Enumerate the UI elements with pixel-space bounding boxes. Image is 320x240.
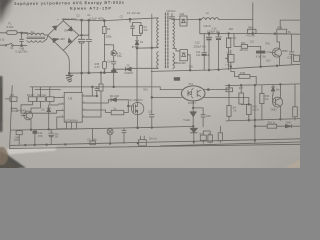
TL431 U5 box bbox=[228, 54, 234, 62]
junction C4 bottom bbox=[21, 45, 23, 47]
junction return C1 bbox=[88, 72, 90, 74]
switch S1 bbox=[5, 45, 7, 47]
junction bus Q2 bbox=[30, 129, 32, 131]
Vcc rail bbox=[30, 72, 114, 87]
secondary ground bus bbox=[151, 64, 300, 71]
wire bridge minus down bbox=[63, 50, 69, 73]
wire pin6 gate path bbox=[87, 100, 111, 103]
bottom wire W2 bbox=[161, 142, 301, 146]
junction bus TL431 bbox=[192, 126, 194, 128]
transistor Q4 bbox=[272, 48, 281, 57]
junction bridge right bbox=[81, 34, 83, 36]
wire choke to bridge AC2 bbox=[45, 36, 48, 41]
wire sense divider bbox=[100, 73, 102, 84]
junction pin out bbox=[96, 95, 98, 97]
capacitor C2 electrolytic bbox=[78, 20, 84, 73]
fuse F1 bbox=[7, 31, 17, 35]
junction gate bbox=[127, 105, 129, 107]
resistor R60 bbox=[218, 133, 222, 141]
resistor R39 bbox=[277, 29, 287, 34]
bright paper edge bottom-left bbox=[0, 147, 56, 156]
inductor L2 bbox=[201, 18, 219, 20]
diode D4 bbox=[12, 107, 18, 110]
junction boundary top bbox=[151, 47, 153, 49]
transformer T1 lower secondary winding bbox=[173, 53, 175, 69]
wire drain bbox=[136, 48, 138, 102]
bottom wire W1 bbox=[10, 139, 300, 146]
junction C18 bbox=[192, 107, 194, 109]
junction ctrl 1 bbox=[228, 85, 230, 87]
relay box K1 bbox=[139, 140, 147, 146]
capacitor C1 bbox=[86, 20, 92, 72]
resistor R44 bbox=[239, 75, 250, 79]
diode D9 bbox=[111, 98, 128, 102]
junction low rail 2 bbox=[280, 118, 282, 120]
output terminal frame bbox=[280, 20, 300, 29]
junction bus Q1 bbox=[137, 127, 139, 129]
wire bridge plus stub to bus bbox=[62, 19, 64, 20]
box right edge bbox=[294, 55, 300, 61]
capacitor C4 bbox=[20, 33, 24, 46]
junction C4 top bbox=[21, 32, 23, 34]
junction bus C2 bbox=[81, 19, 83, 21]
capacitor C11 bbox=[202, 34, 207, 71]
wire Q1 source bbox=[137, 115, 139, 128]
capacitor C13 bbox=[206, 34, 212, 71]
choke L1 top winding bbox=[28, 33, 45, 35]
wire opto out collector bbox=[205, 86, 230, 90]
box R17 bbox=[226, 88, 233, 92]
wire choke to bridge AC1 bbox=[44, 34, 47, 36]
low rail right bbox=[226, 119, 300, 121]
capacitor C18 bbox=[193, 108, 205, 127]
resistor R2 bbox=[103, 21, 105, 27]
capacitor C6 bbox=[87, 87, 99, 96]
junction divider bbox=[248, 104, 250, 106]
dark table edge left bbox=[0, 76, 3, 132]
junction ctrl 3 bbox=[280, 84, 282, 86]
connector CN1 bbox=[174, 77, 180, 81]
junction C14 bbox=[218, 33, 220, 35]
wire pin left links bbox=[21, 98, 60, 129]
junction return C2 bbox=[81, 72, 83, 74]
wire opto LED anode bbox=[114, 87, 182, 90]
junction bus snubber bbox=[129, 18, 131, 20]
junction output rail bbox=[252, 33, 254, 35]
Y-capacitor C15 bbox=[169, 13, 174, 19]
optocoupler U3 PC817 bbox=[181, 86, 205, 101]
transformer T1 primary winding bbox=[157, 18, 159, 48]
wire primary boundary vertical bbox=[151, 14, 153, 114]
resistor R4 bbox=[32, 87, 34, 97]
dark table corner top-left bbox=[0, 0, 30, 34]
diode D16 bbox=[190, 126, 197, 143]
dark table corner bottom-left bbox=[0, 152, 26, 169]
choke L1 core bbox=[27, 37, 45, 38]
zener D3 in circle bbox=[111, 51, 116, 56]
resistor R40 bbox=[248, 29, 257, 33]
resistor R9 bbox=[87, 110, 112, 113]
box HL1 bbox=[5, 97, 10, 102]
rectifier D14 bbox=[180, 50, 188, 61]
transformer T1 secondary winding bbox=[173, 20, 175, 49]
beeper circle bbox=[107, 129, 113, 135]
junction minus rail bbox=[68, 72, 70, 74]
wire L2 to right bbox=[219, 19, 253, 21]
junction D2 node bbox=[113, 68, 115, 70]
capacitor C17 film bbox=[256, 51, 265, 54]
capacitor C14 bbox=[216, 34, 222, 71]
IC ground drops bbox=[57, 122, 77, 129]
wire AC neutral input bbox=[0, 44, 5, 46]
junction drop top bbox=[254, 84, 256, 86]
snubber capacitor C3 bbox=[131, 26, 135, 35]
junction ctrl 2 bbox=[240, 84, 242, 86]
resistor R11 bbox=[49, 87, 51, 97]
capacitor C23 bbox=[122, 128, 126, 143]
transistor Q5 D882 bbox=[273, 97, 283, 107]
bottom primary bus bbox=[11, 126, 194, 130]
bridge rectifier D5 KBL406 bbox=[48, 21, 79, 51]
resistor R49 bbox=[247, 104, 252, 114]
rectifier D13 bbox=[180, 16, 187, 26]
junction bus C10 bbox=[151, 127, 153, 129]
resistor R46 bbox=[228, 86, 230, 106]
wire AC live input bbox=[0, 32, 7, 34]
output plus rail bbox=[200, 33, 300, 36]
clamp diode D1 bbox=[135, 39, 139, 49]
transistor Q2 bbox=[24, 111, 33, 120]
junction R41 bbox=[228, 33, 230, 35]
diode D17 bbox=[291, 125, 300, 128]
capacitor C9 bbox=[92, 129, 94, 142]
wires resistor row down bbox=[21, 101, 59, 113]
junction drop low bbox=[254, 119, 256, 121]
control rail right bbox=[226, 84, 301, 86]
resistor R10 bbox=[40, 87, 42, 97]
junction Vcc bbox=[113, 86, 115, 88]
resistor R19 bbox=[261, 85, 263, 120]
resistor R50 bbox=[241, 45, 247, 49]
junction drop bbox=[254, 125, 256, 127]
dc plus bus bbox=[63, 18, 157, 21]
wire rail2 bbox=[35, 88, 61, 90]
junction rail R39 bbox=[274, 33, 276, 35]
resistor R41 bbox=[226, 38, 230, 48]
junction sec bus c13 bbox=[218, 69, 220, 71]
capacitor C22 bbox=[289, 34, 294, 64]
capacitor C7 film bbox=[111, 70, 116, 73]
diode D2 bbox=[114, 67, 158, 71]
wire fuse to choke bbox=[17, 33, 28, 34]
junction sec bus c11 bbox=[208, 69, 210, 71]
junction pin7 bbox=[91, 86, 93, 88]
wire bridge right vertex tie bbox=[79, 20, 89, 35]
resistor R47 bbox=[240, 85, 242, 93]
junction C13 bbox=[208, 33, 210, 35]
wire mid connections bbox=[231, 67, 239, 77]
mid bus junctions bbox=[230, 66, 232, 68]
wire opto LED cathode bbox=[152, 96, 182, 98]
resistor R58 bbox=[200, 135, 206, 140]
junction W1 dots bbox=[25, 144, 27, 146]
TL431 D7 bbox=[190, 112, 196, 127]
brown table patch bottom-left bbox=[0, 147, 8, 165]
transformer T1 aux winding bbox=[157, 52, 159, 69]
capacitor C20 electrolytic bbox=[49, 129, 54, 144]
resistor R51 bbox=[255, 125, 267, 127]
wire R50 bbox=[234, 33, 241, 46]
junction opto left bbox=[151, 97, 153, 99]
wire pin3 sense bbox=[87, 95, 101, 117]
capacitor C16 bbox=[112, 62, 116, 69]
junction bus C1 bbox=[88, 19, 90, 21]
junction low rail bbox=[248, 119, 250, 121]
wire low rail drop bbox=[254, 85, 256, 143]
IC pins left bbox=[60, 98, 65, 118]
IC pins right bbox=[82, 96, 87, 117]
MOSFET Q1 bbox=[131, 102, 143, 114]
primary return rail bbox=[69, 71, 117, 74]
junction drain branch bbox=[136, 47, 138, 49]
resistor R59 bbox=[208, 135, 213, 142]
paper mottle bbox=[0, 0, 1, 1]
resistor R15 sense bbox=[102, 61, 106, 69]
resistor R48 bbox=[294, 84, 296, 107]
junction bus zener bbox=[48, 129, 50, 131]
wire rectified drop bbox=[199, 20, 201, 34]
junction R15 rail bbox=[104, 72, 106, 74]
snubber resistor R1 bbox=[139, 26, 142, 34]
junction sense bbox=[100, 72, 102, 74]
IC U1 UC3843 bbox=[64, 92, 82, 122]
earth ground bbox=[66, 73, 73, 82]
snubber tie top bbox=[130, 19, 141, 26]
zener D11 bbox=[271, 85, 275, 95]
capacitor C10 bbox=[150, 115, 155, 129]
junction opto collector bbox=[207, 89, 209, 91]
paper background bbox=[0, 0, 300, 168]
wire Vcc to pin bbox=[87, 87, 93, 96]
film grain bbox=[0, 0, 300, 168]
wire C2 line to IC bbox=[81, 73, 83, 92]
wire opto to TL431 bbox=[192, 100, 194, 111]
wire clamp to primary bottom bbox=[137, 47, 158, 50]
capacitor C19 film bbox=[34, 130, 36, 145]
transformer core bbox=[164, 13, 166, 69]
wire bottom link bbox=[203, 130, 210, 132]
wire switch to choke bbox=[13, 45, 27, 47]
frame border bottom bbox=[10, 144, 300, 148]
wire output drop bbox=[252, 3, 254, 34]
wire opto out emitter bbox=[204, 97, 249, 104]
tan table patch bottom-right bbox=[284, 160, 300, 168]
choke L1 bottom winding bbox=[27, 41, 45, 43]
junction rect drop bbox=[199, 19, 201, 21]
junction D14 out bbox=[189, 69, 191, 71]
zener D5 bbox=[47, 105, 51, 128]
junction bus R2 bbox=[104, 20, 106, 22]
capacitor C8 bbox=[18, 130, 20, 145]
frame border left bbox=[10, 86, 13, 149]
